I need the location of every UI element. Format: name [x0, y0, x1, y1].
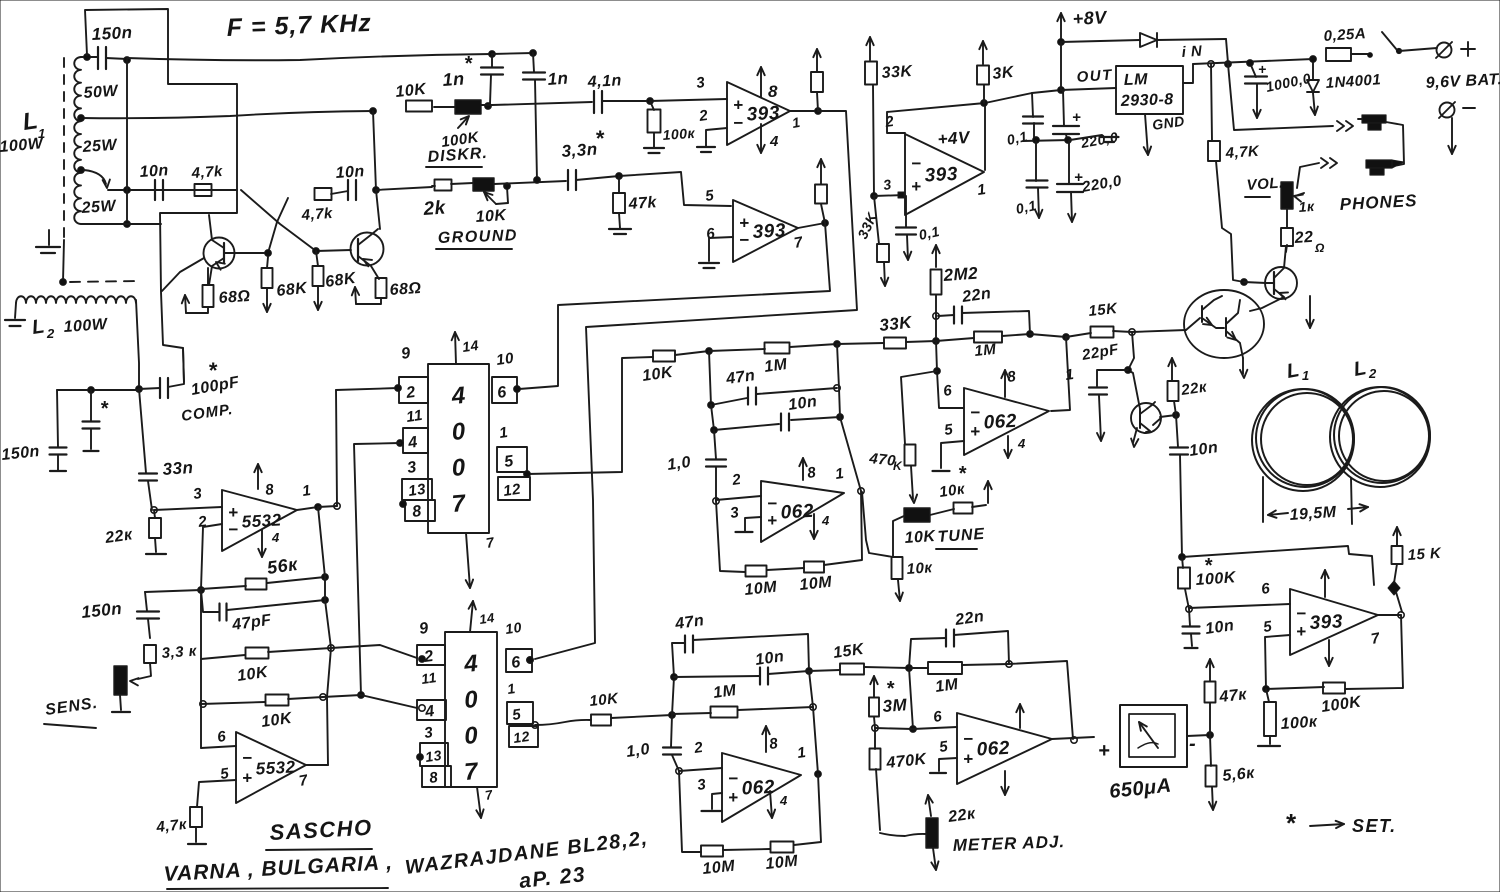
label pin6 — [705, 225, 716, 243]
wire pin3 gnd mid — [736, 517, 762, 532]
title F = 5,7 KHz — [226, 9, 372, 42]
label 0,1 — [1014, 197, 1038, 217]
wire 22k to node — [1174, 401, 1176, 415]
svg-text:+: + — [739, 213, 749, 232]
label 4,7k — [1224, 143, 1260, 162]
label 25W — [80, 198, 118, 218]
power arrow up 5532 — [254, 464, 261, 489]
svg-text:+: + — [1296, 622, 1306, 641]
wire pin6 m — [913, 727, 957, 729]
ground mid rail — [1070, 135, 1119, 142]
wire TUNE left — [893, 516, 904, 556]
capacitor 0,1 ref — [896, 196, 916, 260]
wire L1 bottom tap — [81, 223, 161, 225]
arrow onto TUNE pot — [910, 466, 917, 503]
label pin1 b — [506, 680, 516, 697]
label pin1 — [791, 114, 802, 131]
node after pot — [504, 183, 511, 190]
arrow meter pot up — [926, 795, 933, 816]
label pin6 5532b — [216, 728, 227, 746]
svg-text:K: K — [893, 459, 903, 473]
wire Q4 to 22k node — [1160, 412, 1179, 419]
svg-text:3,3n: 3,3n — [561, 140, 598, 161]
wire pin6 comp — [1189, 604, 1290, 608]
label 1n* — [442, 53, 473, 90]
wire 10n — [711, 405, 844, 433]
wire U1B output — [793, 220, 829, 252]
label L1 — [21, 107, 46, 141]
resistor 33k (mixer) — [884, 338, 906, 349]
wire rx node rail — [57, 387, 139, 394]
arrow 22pF bottom — [1097, 396, 1104, 441]
svg-text:+4V: +4V — [937, 128, 972, 149]
label iN — [1181, 43, 1203, 61]
label 10M — [799, 574, 833, 594]
pot SENS — [114, 666, 127, 695]
svg-text:100W: 100W — [63, 316, 109, 336]
arrow 3M — [870, 676, 877, 697]
svg-text:10M: 10M — [765, 853, 799, 873]
svg-text:*: * — [1285, 808, 1297, 838]
diode 1N (supply) — [1140, 33, 1226, 47]
plus mark — [1258, 61, 1267, 77]
wire 4007b out — [535, 720, 591, 725]
op-amp U6 062 int — [722, 753, 801, 822]
node 4007b pin6 join — [527, 657, 534, 664]
svg-text:47k: 47k — [627, 194, 658, 213]
svg-text:4: 4 — [769, 133, 779, 150]
supply arrow +8V — [1057, 7, 1108, 42]
wire L2 down — [136, 300, 143, 392]
svg-text:2930-8: 2930-8 — [1120, 91, 1174, 110]
label 1K — [1298, 198, 1315, 215]
wire phones rail — [1228, 64, 1333, 130]
svg-text:15K: 15K — [1088, 300, 1119, 320]
wire 22n m — [909, 631, 1012, 668]
svg-text:*: * — [886, 678, 895, 700]
capacitor 150n #2 — [137, 592, 159, 638]
wire fb rail — [320, 600, 331, 765]
capacitor 1000,0 — [1245, 60, 1267, 118]
resistor 2k — [435, 180, 452, 191]
wire m output — [1052, 737, 1094, 739]
wire diode rail — [1061, 40, 1140, 42]
pullup resistor U1A — [811, 72, 823, 111]
resistor 33k (ref top) — [865, 62, 877, 85]
node +8V — [1058, 39, 1065, 46]
node IN rail 2 — [1225, 61, 1232, 68]
wiper arrow DISKR pot — [458, 116, 469, 128]
svg-text:4: 4 — [779, 793, 788, 808]
wire ref feedback — [887, 100, 987, 170]
svg-text:50W: 50W — [83, 83, 120, 102]
op-amp U3B 062 mid — [761, 481, 844, 542]
power arrow up m — [1016, 704, 1023, 728]
wire fb m — [1009, 661, 1077, 743]
label 15K int — [832, 641, 866, 662]
wire jack1 loop — [1386, 122, 1404, 166]
resistor 4,7k (5532b) — [190, 807, 202, 827]
label OUT — [1076, 66, 1114, 86]
resistor 47k m — [1205, 682, 1216, 703]
wire 33k riser — [871, 85, 878, 199]
wiper arrow VOL — [1294, 193, 1304, 202]
label 10K — [236, 664, 270, 685]
wire 10M link int — [723, 774, 821, 850]
wire 56k — [201, 574, 328, 589]
svg-text:4: 4 — [1017, 436, 1026, 451]
wire1 to 1n node — [492, 50, 536, 57]
label 68k — [324, 270, 358, 291]
pot 100K DISKR — [455, 100, 481, 114]
resistor 10K (int) — [591, 715, 611, 726]
capacitor 220,0 #1 — [1053, 90, 1079, 140]
op-amp U1A 393 — [727, 82, 790, 145]
wire 15k wires — [1066, 329, 1135, 337]
label L2 100W — [31, 315, 110, 341]
resistor 47k — [613, 176, 625, 213]
label pin3 int — [696, 776, 707, 794]
svg-text:+: + — [728, 788, 738, 807]
wire int bottom rail — [679, 771, 701, 852]
wire U1A out riser — [535, 111, 857, 659]
wire Q1 base to left — [162, 258, 204, 291]
svg-text:2k: 2k — [422, 197, 447, 220]
wire osc top (wire1) — [127, 54, 492, 60]
label 100K — [662, 125, 696, 143]
resistor 56K — [246, 579, 267, 590]
label 22n — [960, 285, 992, 306]
capacitor 33n — [139, 389, 157, 510]
capacitor 1,0 mid — [706, 430, 726, 504]
svg-text:+: + — [1098, 740, 1110, 762]
capacitor 22pF — [1089, 388, 1107, 395]
wire vertical x127 — [126, 60, 128, 224]
wire 3k to node — [983, 85, 985, 103]
wire L1 top tap — [81, 54, 97, 61]
label 56K — [266, 554, 300, 578]
svg-text:+: + — [1258, 61, 1267, 77]
IC 4007 #1 body — [428, 364, 489, 533]
battery terminal - — [1439, 102, 1475, 118]
wire wire2 cont — [434, 102, 592, 107]
label 4,7k — [190, 163, 223, 182]
svg-text:4,7k: 4,7k — [190, 163, 223, 182]
underline GROUND — [436, 248, 512, 250]
svg-text:0: 0 — [451, 454, 467, 482]
ground 100k comp — [1258, 736, 1280, 746]
svg-text:11: 11 — [405, 407, 424, 426]
capacitor 150n rx — [50, 390, 67, 471]
wire 2k to pot — [432, 183, 473, 186]
svg-text:10K: 10K — [475, 207, 508, 226]
resistor 15K int-out — [809, 664, 912, 675]
svg-text:150n: 150n — [91, 23, 133, 44]
svg-text:0: 0 — [463, 686, 479, 714]
resistor 3M — [869, 698, 879, 717]
label 4,1n — [586, 72, 622, 91]
wire U1B out riser — [519, 223, 830, 389]
label +4V — [937, 128, 972, 149]
label pin6 comp — [1260, 580, 1271, 598]
svg-text:10: 10 — [504, 619, 523, 637]
label pin5 m — [938, 738, 949, 756]
op-amp U7 062 meter — [957, 713, 1052, 784]
pin box 2 (4007#1) — [395, 377, 428, 403]
svg-text:8: 8 — [768, 82, 778, 101]
resistor 22K (rx) — [149, 510, 161, 538]
svg-text:062: 062 — [983, 411, 1017, 434]
transistor Q2 — [351, 229, 384, 279]
svg-text:+: + — [911, 177, 921, 196]
jack contact 2 — [1321, 158, 1337, 168]
arrow 15k comp — [1393, 527, 1400, 545]
pot 100K GROUND — [473, 178, 494, 191]
wire pin4 rail b — [323, 695, 417, 708]
svg-text:393: 393 — [924, 164, 958, 187]
pin box 6 (4007#2) — [506, 649, 533, 672]
node IN rail 1 — [1208, 61, 1214, 67]
capacitor 47pF — [220, 604, 227, 621]
label 3,3n — [561, 126, 605, 161]
svg-text:1M: 1M — [763, 356, 789, 376]
node fb rail a — [328, 645, 334, 651]
label 10n — [1204, 617, 1235, 638]
pot VOL 1K — [1281, 182, 1293, 209]
wire pin5 5532b — [197, 780, 236, 807]
label 33K — [881, 63, 914, 82]
svg-text:56к: 56к — [266, 554, 300, 578]
power arrow down m — [1001, 771, 1008, 795]
resistor 10M a — [746, 566, 767, 577]
op-amp U1B 393 — [733, 200, 798, 262]
resistor 3k — [977, 66, 989, 85]
wire comp output — [1378, 612, 1404, 618]
svg-text:14: 14 — [478, 610, 496, 627]
svg-text:1: 1 — [1302, 368, 1310, 383]
label 10k — [906, 559, 934, 578]
label 220,0 — [1079, 129, 1120, 151]
svg-text:4: 4 — [462, 650, 479, 678]
label 33K — [878, 313, 914, 335]
label 220,0 — [1080, 172, 1124, 196]
label 100pF — [190, 358, 242, 399]
pin7 arrow 4007#1 — [466, 533, 497, 588]
power arrow down comp — [1325, 640, 1332, 666]
svg-text:4,1n: 4,1n — [586, 72, 622, 91]
label SASCHO — [266, 815, 373, 850]
resistor 10M d — [771, 842, 794, 853]
label 470K m — [885, 751, 929, 772]
plus mark — [1072, 109, 1081, 126]
node multivib out — [373, 187, 380, 194]
label L1 coil — [1285, 359, 1310, 383]
label plus meter — [1098, 740, 1110, 762]
power arrow down 5532 — [258, 530, 280, 557]
wire 062#1 feedback riser — [1051, 337, 1070, 411]
svg-text:10M: 10M — [702, 858, 736, 878]
pin box 5 (4007#1) — [497, 447, 527, 472]
wiper arrow GROUND pot — [484, 187, 508, 204]
svg-text:1M: 1M — [712, 682, 738, 702]
capacitor 0,1 #2 — [1027, 141, 1048, 218]
dimension 19,5M — [1263, 477, 1368, 524]
resistor 1M int — [711, 707, 738, 718]
wire 3,3k to pot — [130, 663, 151, 685]
transistor Q4 — [1131, 402, 1161, 447]
label pin1 ref — [976, 181, 987, 199]
svg-text:i N: i N — [1181, 43, 1203, 61]
resistor 10K b (5532#2) — [200, 695, 323, 708]
wire cross-couple B — [268, 198, 288, 253]
wire 470k to pot — [876, 769, 926, 836]
svg-text:OUT: OUT — [1076, 66, 1114, 86]
label COMP. — [180, 401, 234, 425]
svg-text:100к: 100к — [1280, 713, 1318, 733]
capacitor 10n (det) — [1170, 415, 1188, 557]
svg-text:1к: 1к — [1298, 198, 1315, 215]
svg-text:−: − — [911, 154, 921, 173]
svg-text:10к: 10к — [906, 559, 934, 578]
transistor pair inside — [1186, 296, 1243, 358]
wire 3,3n to opamp2 — [576, 172, 731, 206]
resistor 10k (wire2) — [406, 101, 432, 112]
svg-text:1n: 1n — [547, 69, 569, 89]
label pin9 b — [418, 620, 430, 638]
label 100K — [440, 129, 481, 151]
label 0,1 — [917, 223, 941, 243]
op-amp U5A 5532 — [222, 490, 297, 551]
svg-text:5532: 5532 — [255, 757, 296, 778]
label 50W — [83, 83, 120, 102]
label pin11 b — [420, 669, 438, 687]
wire 3M node — [872, 717, 913, 731]
label pin9 — [400, 345, 412, 363]
resistor 100K (comp in) — [1178, 557, 1190, 589]
label pin6 m — [932, 708, 943, 726]
capacitor 10n (multivib 1) — [155, 180, 163, 200]
transistor Q3 — [1250, 246, 1297, 311]
wire 5532 out — [297, 503, 340, 511]
arrow 47k m — [1206, 659, 1213, 681]
svg-text:−: − — [1296, 604, 1306, 623]
wire det rail — [1179, 546, 1374, 585]
label 2M2 — [942, 264, 979, 285]
wire 4,1n to pin3 — [602, 98, 727, 105]
resistor 4,7k (multivib 2) — [315, 188, 332, 200]
resistor 33k (ref bottom) — [874, 196, 889, 262]
label 1M m — [934, 676, 960, 696]
label 10M — [744, 579, 778, 599]
wire pot to 3,3n — [494, 181, 566, 184]
wire 062mid out to tune — [862, 492, 893, 557]
wire pin6 ground — [699, 237, 733, 268]
label pin8 — [264, 481, 275, 499]
label 2k — [422, 197, 447, 220]
resistor 22K — [1168, 381, 1179, 401]
plus mark — [1074, 169, 1083, 186]
search coil L1 — [1252, 389, 1354, 491]
svg-text:11: 11 — [420, 669, 438, 687]
svg-text:062: 062 — [976, 738, 1010, 761]
svg-text:14: 14 — [461, 337, 480, 355]
capacitor 4,1n — [594, 91, 602, 113]
resistor 2M2 — [931, 270, 942, 295]
label WAZRAJDANE — [404, 827, 650, 879]
wire dashed shield bottom — [60, 240, 138, 285]
svg-text:+8V: +8V — [1072, 7, 1109, 29]
capacitor 220,0 #2 — [1057, 141, 1083, 222]
wire 22pF branch — [1097, 332, 1134, 386]
label 1M — [763, 356, 789, 376]
label 68k — [276, 280, 309, 300]
resistor 100k (pin3) — [648, 101, 661, 133]
ground 100k — [644, 133, 664, 153]
label pin3 — [695, 74, 706, 92]
label 68ohm — [218, 288, 251, 307]
jack contact 1 — [1337, 121, 1353, 131]
resistor 470K m — [870, 728, 881, 770]
wire 470k branch — [901, 371, 937, 444]
label 0,1 — [1005, 128, 1029, 148]
label pin10 b — [504, 619, 523, 637]
svg-text:1n: 1n — [442, 69, 465, 90]
resistor 68ohm (Q2 emitter) — [376, 278, 387, 298]
label 47n int — [673, 612, 705, 633]
svg-text:4,7к: 4,7к — [155, 816, 189, 836]
power arrow down int — [768, 791, 788, 818]
capacitor 10n int — [760, 668, 768, 685]
wire to 15k — [1030, 334, 1069, 341]
label 10K — [641, 364, 675, 385]
label PHONES — [1339, 191, 1418, 214]
label 100W — [0, 135, 45, 156]
supply arrow Q1 — [182, 295, 208, 313]
label 0,25A — [1323, 25, 1367, 45]
wire +8V to OUT — [1060, 42, 1062, 90]
power arrow 4 (U1A) — [757, 124, 779, 153]
resistor 68k (Q1 base) — [262, 257, 273, 288]
wire 2M2 node down — [933, 316, 940, 344]
label pin5 — [943, 421, 954, 439]
wire 33k wires — [837, 341, 936, 344]
label 10n — [1188, 439, 1219, 460]
svg-text:*: * — [208, 358, 218, 383]
capacitor 10n mid — [781, 414, 789, 431]
label 150n — [91, 23, 133, 44]
svg-text:33n: 33n — [162, 458, 194, 479]
label pin11 — [405, 407, 424, 426]
svg-text:1M: 1M — [934, 676, 960, 696]
svg-text:100к: 100к — [662, 125, 696, 143]
resistor 4,7k (multivib 1) — [195, 184, 212, 196]
svg-text:Ω: Ω — [1314, 241, 1325, 255]
label pin1 int — [796, 744, 807, 762]
label VOL. — [1245, 174, 1284, 197]
inductor L2 winding — [16, 296, 136, 303]
label 10k set — [938, 463, 967, 501]
arrow darlington emitter — [1240, 358, 1247, 378]
node 5532 in — [151, 507, 157, 513]
svg-text:LM: LM — [1124, 71, 1149, 89]
svg-text:100K: 100K — [1195, 569, 1237, 589]
wire pin6 chain — [934, 341, 963, 408]
label pin2 — [697, 107, 709, 125]
wire pin6 5532b — [201, 746, 236, 748]
svg-text:5,6к: 5,6к — [1222, 765, 1256, 785]
resistor 10K a (5532#2) — [201, 648, 331, 660]
label pin5 comp — [1262, 618, 1273, 636]
